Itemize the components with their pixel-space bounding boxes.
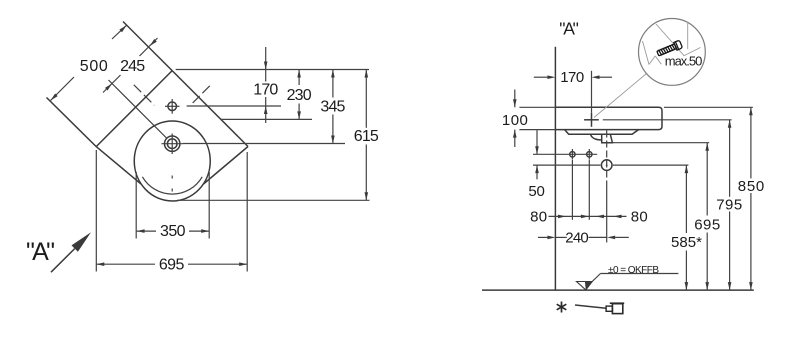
extension line drain level <box>183 143 345 145</box>
label 345 <box>320 98 345 115</box>
hidden edge dashed right <box>193 86 210 103</box>
outlet bottom extension to 695 <box>612 142 709 144</box>
svg-text:585*: 585* <box>671 234 702 251</box>
label OKFFB <box>608 265 659 276</box>
bowl outer outline <box>134 121 210 201</box>
extension lines 695 <box>96 150 247 272</box>
label 695 <box>159 256 185 273</box>
drain hole symbol <box>162 134 184 155</box>
fixing holes side view <box>570 149 592 160</box>
view label A right <box>559 19 579 39</box>
label 50 <box>528 183 545 200</box>
dimension 850 vertical <box>749 107 753 290</box>
label 500 <box>80 58 108 75</box>
svg-text:170: 170 <box>560 69 584 86</box>
floor line <box>482 289 754 291</box>
floor level symbol <box>577 274 679 290</box>
screw icon <box>656 40 682 57</box>
basin back edge T-to-L <box>96 71 172 147</box>
svg-text:100: 100 <box>502 112 528 129</box>
dimension 695 with inside arrows <box>96 262 247 266</box>
svg-text:230: 230 <box>287 87 312 104</box>
dimension 500 line with arrows <box>51 25 127 100</box>
basin left side edge with extension line to 500 dim <box>47 98 142 185</box>
basin back edge T-to-R with extension line to 500 dim <box>123 22 248 147</box>
svg-text:"A": "A" <box>559 19 579 39</box>
hidden edge dashed left <box>134 85 155 106</box>
label 80 left <box>530 209 547 226</box>
dimension 695 vertical <box>705 143 709 290</box>
label max.50 <box>665 54 703 69</box>
label 615 <box>354 128 379 145</box>
svg-text:50: 50 <box>528 183 545 200</box>
dimension 80 80 chain <box>549 215 627 219</box>
drain outlet box <box>602 134 613 143</box>
underside tray <box>565 130 639 135</box>
label 80 right <box>631 209 648 226</box>
bowl centerline dots <box>171 176 173 192</box>
extension line bowl rear level <box>221 118 312 120</box>
asterisk symbol <box>557 302 567 313</box>
label 170 <box>253 82 278 99</box>
dimension 245 line with outside arrows <box>103 38 158 93</box>
tap hole symbol <box>165 99 180 114</box>
label 100 <box>502 112 528 129</box>
label 240 <box>565 229 589 246</box>
svg-text:max.50: max.50 <box>665 54 703 69</box>
label 350 <box>160 223 186 240</box>
bowl inner rim line <box>142 177 202 194</box>
svg-text:80: 80 <box>530 209 547 226</box>
extension lines 350 <box>136 172 209 239</box>
label 245 <box>120 58 145 75</box>
svg-text:245: 245 <box>120 58 145 75</box>
svg-text:345: 345 <box>320 98 345 115</box>
dimension 100 <box>513 90 517 148</box>
dimension 230 vertical <box>297 70 301 120</box>
svg-text:240: 240 <box>565 229 589 246</box>
drain diagonal extension line to 245 dim <box>109 80 167 138</box>
dimension 170 top <box>534 75 612 79</box>
dimension 345 vertical <box>331 70 335 144</box>
trap bend arc <box>591 134 602 140</box>
basin slab profile <box>555 107 662 129</box>
label 170 right view <box>560 69 584 86</box>
dimension 795 vertical <box>728 120 732 290</box>
slab top extension right to 850 <box>664 106 753 108</box>
dimension 50 <box>535 130 539 179</box>
label 850 <box>738 178 765 195</box>
slab top extension left <box>519 106 555 108</box>
extension 170 vertical <box>591 71 593 113</box>
wall drain note icon <box>575 303 624 313</box>
view arrow A <box>51 232 91 272</box>
extension line tap hole level <box>187 105 281 107</box>
view label A left <box>26 238 55 266</box>
svg-text:80: 80 <box>631 209 648 226</box>
dimension 615 vertical <box>365 70 369 201</box>
extension line top corner level <box>176 69 369 71</box>
svg-text:170: 170 <box>253 82 278 99</box>
svg-text:615: 615 <box>354 128 379 145</box>
svg-text:"A": "A" <box>26 238 55 266</box>
slab bottom extension left <box>519 129 555 131</box>
fixing holes level line <box>533 153 597 155</box>
dimension 170 vertical <box>264 47 268 123</box>
svg-text:850: 850 <box>738 178 765 195</box>
label 795 <box>716 197 742 214</box>
dimension 585 vertical <box>685 165 689 290</box>
svg-text:695: 695 <box>694 217 720 234</box>
drain circle side view <box>601 160 612 171</box>
extension from fixing cross right to 795 <box>603 119 732 121</box>
leader line to detail circle <box>594 74 646 118</box>
svg-text:350: 350 <box>160 223 186 240</box>
label 585 <box>671 234 702 251</box>
basin right side edge <box>204 147 249 185</box>
detail circle <box>639 19 706 86</box>
svg-text:795: 795 <box>716 197 742 214</box>
svg-text:±0 = OKFFB: ±0 = OKFFB <box>608 265 659 276</box>
dimension 350 with outside arrows <box>137 229 210 233</box>
label 695 right view <box>694 217 720 234</box>
label 230 <box>287 87 312 104</box>
svg-text:695: 695 <box>159 256 185 273</box>
fixing cross symbol <box>584 113 599 127</box>
wall line <box>554 47 556 290</box>
fixing hole extension verticals <box>572 160 589 220</box>
drain centerline <box>606 131 608 243</box>
dimension 240 <box>538 236 629 240</box>
svg-text:500: 500 <box>80 58 108 75</box>
extension line front edge level <box>177 199 370 201</box>
drain level line <box>533 164 688 166</box>
detail interior context lines <box>643 22 701 65</box>
